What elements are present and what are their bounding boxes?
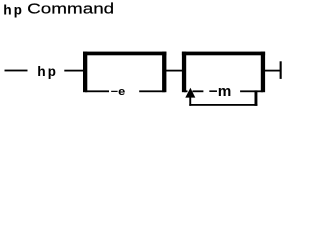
svg-text:hp: hp bbox=[37, 65, 58, 81]
svg-text:−e: −e bbox=[111, 86, 126, 98]
svg-text:hp: hp bbox=[3, 4, 24, 20]
svg-text:Command: Command bbox=[27, 1, 114, 18]
svg-text:−m: −m bbox=[209, 84, 232, 100]
